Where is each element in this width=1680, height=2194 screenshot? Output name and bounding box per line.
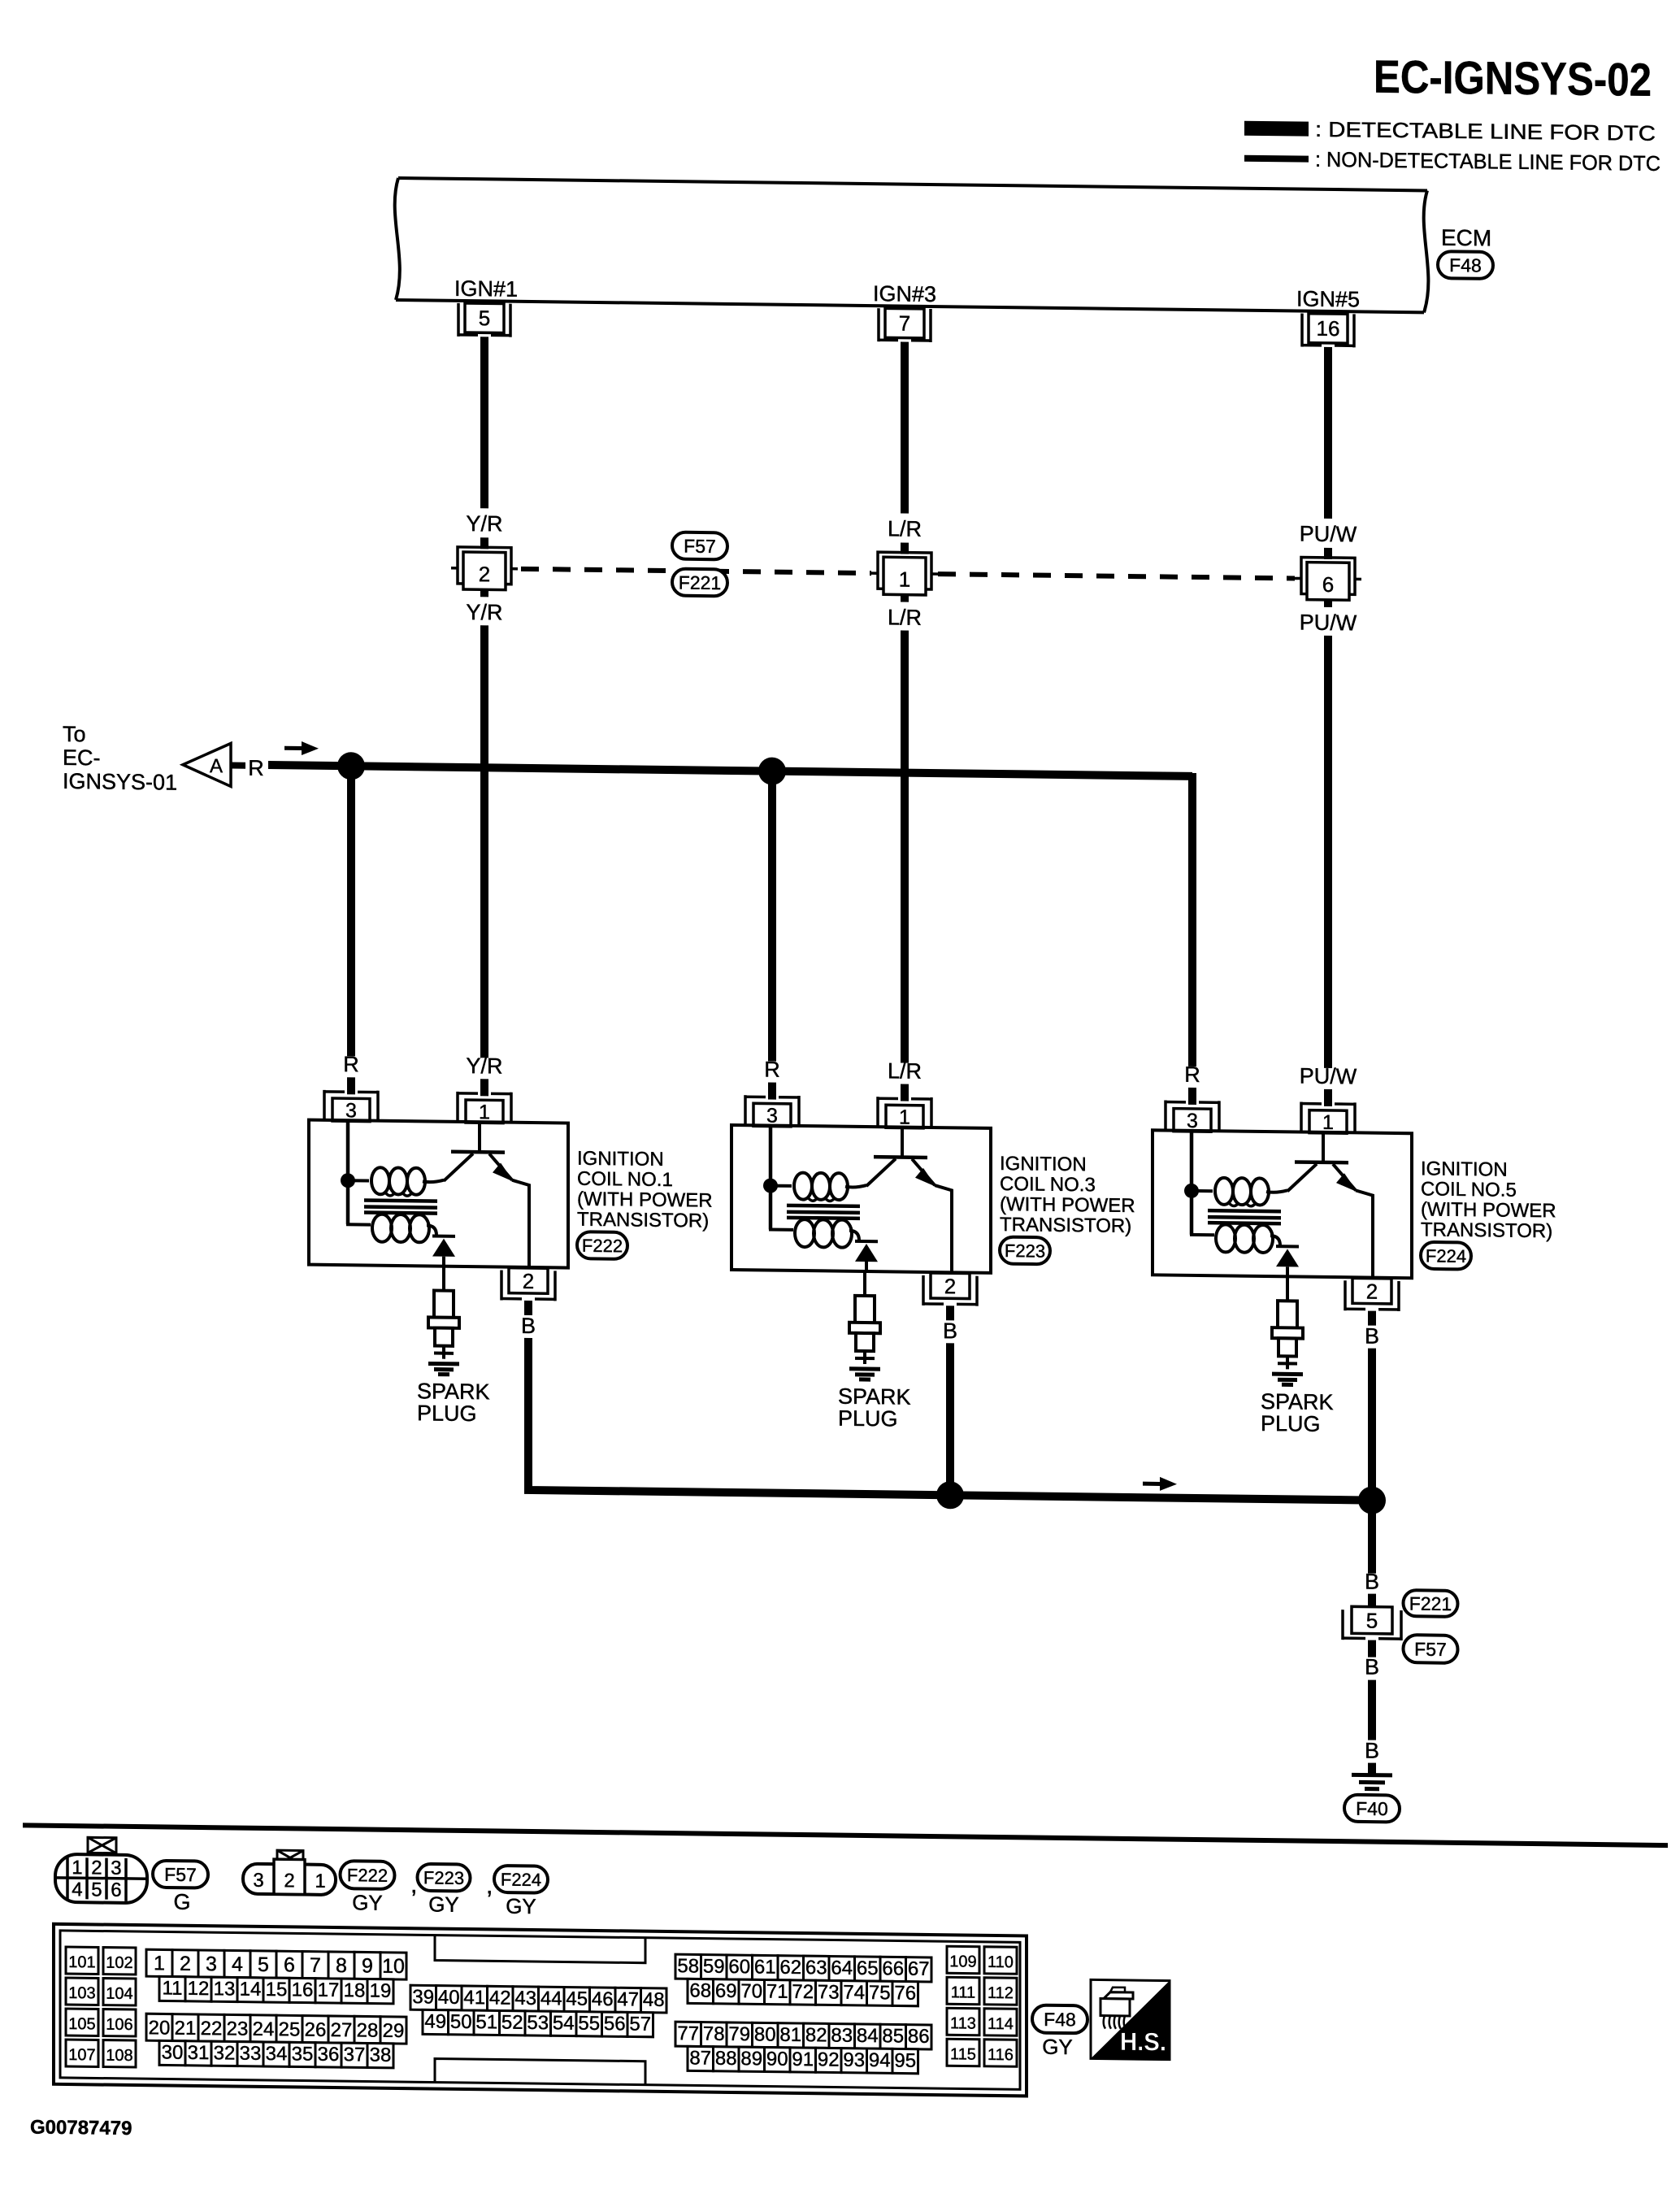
svg-text:COIL NO.3: COIL NO.3	[1000, 1173, 1096, 1196]
connector F57 oval (face view)	[153, 1861, 208, 1888]
svg-text:B: B	[521, 1314, 536, 1338]
svg-text:102: 102	[106, 1954, 132, 1972]
svg-text:To: To	[63, 722, 86, 746]
connector F222/F223/F224 face view (3-pin)	[243, 1850, 336, 1895]
svg-text:62: 62	[779, 1957, 801, 1979]
wire B from coil pin2 x=1169	[946, 1306, 954, 1320]
connector F57	[672, 532, 727, 560]
svg-text:PLUG: PLUG	[417, 1401, 477, 1426]
svg-text:113: 113	[950, 2014, 976, 2032]
svg-text:36: 36	[318, 2044, 340, 2066]
svg-text:B: B	[1365, 1570, 1379, 1594]
coil NO.3 internal transformer/transistor/diode	[763, 1126, 952, 1273]
svg-text:50: 50	[450, 2011, 472, 2033]
svg-text:38: 38	[370, 2044, 392, 2066]
svg-text:116: 116	[988, 2046, 1014, 2064]
coil3 pin 2	[1345, 1278, 1399, 1311]
connector F57 oval	[1404, 1635, 1458, 1663]
svg-text:F222: F222	[582, 1236, 623, 1257]
junction dot B bus coil3	[1358, 1486, 1386, 1514]
svg-text:: NON-DETECTABLE LINE FOR DTC: : NON-DETECTABLE LINE FOR DTC	[1315, 147, 1660, 176]
svg-text:93: 93	[843, 2049, 865, 2071]
svg-text:L/R: L/R	[888, 605, 922, 630]
coil1 pin 3	[324, 1090, 378, 1123]
svg-text:60: 60	[728, 1956, 750, 1978]
ECM pin 7 connector	[879, 308, 931, 342]
svg-text:52: 52	[501, 2012, 523, 2034]
separator rule	[23, 1825, 1668, 1845]
svg-text:88: 88	[715, 2048, 737, 2070]
svg-text:61: 61	[754, 1956, 776, 1978]
coil NO.3 text label	[1000, 1153, 1135, 1237]
svg-text:74: 74	[843, 1982, 865, 2004]
connector F222 oval	[577, 1232, 627, 1259]
svg-text:69: 69	[715, 1980, 737, 2002]
svg-text:1: 1	[315, 1870, 325, 1892]
coil NO.5 internal transformer/transistor/diode	[1184, 1132, 1373, 1279]
wire B from coil pin2 x=650	[524, 1301, 532, 1315]
svg-text:F57: F57	[164, 1864, 197, 1885]
svg-text:56: 56	[604, 2013, 626, 2035]
svg-text:,: ,	[486, 1872, 493, 1899]
junction dot B bus coil2	[936, 1481, 964, 1509]
connector F223 oval (face)	[418, 1864, 471, 1892]
pin grid 11-19	[159, 1976, 393, 2004]
svg-text:2: 2	[180, 1953, 191, 1975]
svg-text:IGN#1: IGN#1	[454, 276, 518, 302]
svg-text:101: 101	[68, 1953, 95, 1971]
legend: non-detectable line for DTC	[1244, 146, 1660, 176]
R branch wire x=1467	[1188, 773, 1196, 1067]
svg-text:21: 21	[175, 2018, 197, 2040]
svg-text:26: 26	[305, 2019, 327, 2041]
svg-text:34: 34	[266, 2043, 288, 2065]
svg-text:COIL NO.5: COIL NO.5	[1421, 1178, 1517, 1201]
dashed connector link	[521, 569, 871, 573]
svg-text:3: 3	[206, 1953, 217, 1975]
svg-text:68: 68	[689, 1979, 711, 2001]
wire stub from triangle	[231, 762, 245, 768]
svg-text:84: 84	[857, 2025, 879, 2047]
svg-text:L/R: L/R	[888, 516, 922, 541]
connector F224 oval	[1421, 1242, 1471, 1270]
svg-text:28: 28	[357, 2019, 379, 2041]
svg-text:GY: GY	[506, 1894, 536, 1918]
svg-text:B: B	[1365, 1324, 1379, 1349]
svg-text:78: 78	[703, 2023, 725, 2045]
ignition coil NO.5 box (with power transistor) F224	[1153, 1130, 1412, 1278]
svg-text:F224: F224	[501, 1869, 541, 1890]
svg-text:IGN#5: IGN#5	[1296, 286, 1360, 311]
svg-text:B: B	[1365, 1655, 1379, 1679]
svg-text:22: 22	[201, 2018, 223, 2040]
svg-text:R: R	[1184, 1062, 1200, 1087]
svg-text:F221: F221	[1409, 1592, 1452, 1614]
svg-text:3: 3	[345, 1099, 357, 1122]
svg-text:H.S.: H.S.	[1120, 2027, 1166, 2057]
svg-text:94: 94	[869, 2049, 891, 2071]
svg-text:4: 4	[232, 1953, 243, 1975]
svg-text:27: 27	[331, 2019, 353, 2041]
wire L/R below inline connector	[901, 593, 909, 602]
arrow on R bus	[284, 746, 302, 750]
svg-text:32: 32	[214, 2042, 236, 2064]
svg-text:33: 33	[240, 2043, 262, 2065]
svg-text:1: 1	[899, 1106, 910, 1129]
svg-text:1: 1	[154, 1952, 165, 1975]
svg-text:: DETECTABLE LINE FOR DTC: : DETECTABLE LINE FOR DTC	[1315, 117, 1656, 146]
svg-text:16: 16	[292, 1979, 314, 2001]
svg-text:16: 16	[1317, 316, 1340, 341]
wire B from coil pin2 x=1688	[1368, 1311, 1376, 1326]
inline connector pin 5 (F221/F57)	[1343, 1606, 1401, 1640]
svg-text:71: 71	[766, 1981, 788, 2003]
inline connector pin 1 (F57/F221)	[871, 552, 938, 595]
svg-text:Y/R: Y/R	[466, 511, 502, 537]
svg-text:F40: F40	[1356, 1798, 1388, 1819]
svg-text:5: 5	[258, 1953, 269, 1976]
svg-text:4: 4	[72, 1879, 82, 1901]
svg-text:GY: GY	[428, 1892, 459, 1916]
wire B to connector 5	[1368, 1501, 1376, 1574]
svg-text:115: 115	[950, 2045, 976, 2063]
B wire coil2 down	[946, 1343, 954, 1495]
svg-text:5: 5	[91, 1879, 102, 1901]
svg-text:Y/R: Y/R	[466, 600, 502, 625]
svg-text:103: 103	[68, 1984, 95, 2002]
pin grid 1-10	[146, 1949, 406, 1979]
wire L/R from ECM pin down	[901, 342, 909, 514]
arrow on B bus	[1143, 1482, 1161, 1486]
svg-text:GY: GY	[1042, 2035, 1073, 2059]
svg-text:30: 30	[162, 2041, 184, 2063]
svg-text:GY: GY	[352, 1890, 383, 1914]
svg-text:41: 41	[463, 1987, 485, 2009]
R branch wire x=950	[768, 771, 776, 1062]
svg-text:59: 59	[703, 1956, 725, 1978]
svg-text:TRANSISTOR): TRANSISTOR)	[577, 1209, 709, 1232]
connector F221 oval	[1404, 1590, 1458, 1617]
svg-text:86: 86	[908, 2026, 930, 2048]
wire Y/R below inline connector	[480, 588, 488, 597]
svg-text:IGNSYS-01: IGNSYS-01	[63, 769, 177, 795]
svg-text:104: 104	[106, 1985, 132, 2003]
svg-text:23: 23	[227, 2018, 249, 2040]
pin grid 58-67	[675, 1954, 931, 1982]
connector F222 oval (face)	[341, 1861, 395, 1889]
svg-text:G00787479: G00787479	[30, 2116, 132, 2140]
wire PU/W from ECM pin down	[1324, 347, 1332, 519]
svg-text:PLUG: PLUG	[1261, 1411, 1321, 1436]
svg-text:37: 37	[344, 2044, 366, 2066]
svg-text:76: 76	[894, 1982, 916, 2004]
svg-text:110: 110	[988, 1953, 1014, 1971]
ECM module band	[395, 178, 1429, 313]
To EC-IGNSYS-01 label	[63, 722, 177, 795]
pin grid 30-38	[159, 2040, 393, 2068]
svg-text:92: 92	[818, 2048, 840, 2070]
svg-text:PU/W: PU/W	[1300, 522, 1357, 547]
svg-text:81: 81	[779, 2024, 801, 2046]
svg-text:46: 46	[592, 1988, 614, 2010]
svg-text:5: 5	[479, 306, 490, 330]
GY color labels	[352, 1890, 536, 1918]
ground symbol F40	[1352, 1775, 1392, 1789]
svg-text:2: 2	[1366, 1279, 1378, 1304]
svg-text:R: R	[764, 1057, 779, 1081]
svg-text:7: 7	[899, 311, 910, 336]
svg-text:70: 70	[740, 1980, 762, 2002]
svg-text:9: 9	[362, 1954, 373, 1977]
svg-text:83: 83	[831, 2024, 853, 2046]
svg-text:14: 14	[240, 1979, 262, 2001]
coil NO.5 text label	[1421, 1158, 1556, 1242]
svg-text:75: 75	[869, 1982, 891, 2004]
ECM connector pinout block outline	[54, 1924, 1027, 2096]
svg-text:R: R	[248, 756, 263, 780]
svg-text:EC-: EC-	[63, 745, 100, 771]
svg-text:54: 54	[553, 2012, 575, 2034]
svg-text:82: 82	[805, 2024, 827, 2046]
svg-text:IGN#3: IGN#3	[873, 281, 936, 306]
svg-text:64: 64	[831, 1957, 853, 1979]
coil NO.1 internal transformer/transistor/diode	[341, 1121, 529, 1268]
svg-text:2: 2	[284, 1870, 294, 1892]
svg-text:24: 24	[253, 2018, 275, 2040]
svg-text:45: 45	[566, 1988, 588, 2010]
coil2 pin 3	[745, 1095, 799, 1127]
coil1 pin 2	[501, 1268, 555, 1301]
B wire coil3 down	[1368, 1349, 1376, 1501]
svg-text:F57: F57	[1414, 1639, 1447, 1660]
bottom key notch	[435, 2059, 645, 2085]
spark plug label	[838, 1384, 911, 1432]
junction dot at coil2 branch	[758, 757, 786, 784]
svg-text:F48: F48	[1044, 2009, 1076, 2030]
svg-text:F221: F221	[679, 571, 721, 593]
svg-text:F223: F223	[1005, 1240, 1045, 1262]
coil NO.1 text label	[577, 1148, 713, 1232]
svg-text:31: 31	[188, 2042, 210, 2064]
svg-text:108: 108	[106, 2047, 132, 2065]
svg-text:112: 112	[988, 1984, 1014, 2002]
svg-text:F222: F222	[347, 1865, 388, 1886]
svg-text:67: 67	[908, 1958, 930, 1980]
svg-text:PU/W: PU/W	[1300, 610, 1357, 636]
svg-text:1: 1	[72, 1857, 82, 1879]
svg-text:58: 58	[677, 1955, 699, 1977]
svg-text:91: 91	[792, 2048, 814, 2070]
ECM pin 16 connector	[1302, 314, 1354, 348]
spark plug at x=546	[428, 1266, 459, 1374]
svg-text:48: 48	[643, 1989, 665, 2011]
coil2 pin 1	[878, 1097, 931, 1129]
wire Y/R from ECM pin down	[480, 337, 488, 508]
svg-text:55: 55	[578, 2013, 600, 2035]
R bus horizontal wire	[268, 765, 1192, 776]
coil2 pin 2	[923, 1273, 977, 1306]
svg-text:IGNITION: IGNITION	[1421, 1158, 1508, 1180]
svg-text:57: 57	[629, 2013, 651, 2035]
svg-text:10: 10	[382, 1955, 405, 1978]
svg-text:B: B	[943, 1319, 957, 1343]
ignition coil NO.1 box (with power transistor) F222	[309, 1120, 568, 1268]
svg-text:20: 20	[149, 2017, 171, 2039]
svg-text:77: 77	[677, 2022, 699, 2044]
svg-text:11: 11	[163, 1977, 183, 1999]
coil1 pin 1	[458, 1092, 511, 1124]
svg-text:ECM: ECM	[1441, 225, 1491, 251]
svg-text:F57: F57	[684, 536, 716, 557]
connector F223 oval	[1000, 1237, 1050, 1265]
svg-text:111: 111	[951, 1983, 975, 2001]
svg-text:53: 53	[527, 2012, 549, 2034]
svg-text:3: 3	[111, 1857, 121, 1879]
svg-text:106: 106	[106, 2016, 132, 2034]
svg-text:1: 1	[479, 1101, 490, 1123]
pin grid 68-76	[688, 1979, 918, 2005]
svg-text:90: 90	[766, 2048, 788, 2070]
svg-text:1: 1	[899, 567, 910, 592]
svg-text:3: 3	[766, 1105, 778, 1127]
svg-text:107: 107	[68, 2046, 95, 2064]
svg-text:Y/R: Y/R	[466, 1054, 502, 1079]
svg-text:F224: F224	[1426, 1245, 1466, 1266]
svg-text:85: 85	[882, 2025, 904, 2047]
svg-text:44: 44	[540, 1988, 562, 2009]
svg-text:EC-IGNSYS-02: EC-IGNSYS-02	[1374, 51, 1652, 106]
svg-text:F48: F48	[1449, 254, 1482, 276]
svg-text:PLUG: PLUG	[838, 1406, 898, 1432]
inline connector pin 6 (F57/F221)	[1295, 557, 1361, 600]
svg-text:17: 17	[318, 1979, 340, 2001]
connector F40 oval	[1344, 1795, 1400, 1823]
svg-text:80: 80	[754, 2023, 776, 2045]
svg-text:TRANSISTOR): TRANSISTOR)	[1000, 1214, 1131, 1237]
off-page reference triangle A	[183, 743, 231, 787]
svg-text:2: 2	[479, 562, 490, 586]
svg-text:R: R	[343, 1052, 358, 1076]
svg-text:49: 49	[424, 2010, 446, 2032]
svg-text:1: 1	[1322, 1111, 1334, 1134]
svg-text:39: 39	[412, 1986, 434, 2008]
svg-text:2: 2	[944, 1274, 956, 1298]
svg-text:6: 6	[284, 1953, 295, 1976]
svg-text:79: 79	[728, 2023, 750, 2045]
svg-text:63: 63	[805, 1957, 827, 1979]
wire B below connector 5	[1368, 1640, 1376, 1657]
junction dot at coil1 branch	[337, 752, 365, 780]
svg-text:6: 6	[111, 1879, 121, 1901]
svg-text:105: 105	[68, 2015, 95, 2033]
svg-text:51: 51	[475, 2011, 497, 2033]
svg-text:18: 18	[344, 1979, 366, 2001]
svg-text:95: 95	[894, 2049, 916, 2071]
svg-text:73: 73	[818, 1981, 840, 2003]
spark plug label	[417, 1379, 490, 1426]
svg-text:65: 65	[857, 1957, 879, 1979]
ignition coil NO.3 box (with power transistor) F223	[731, 1125, 991, 1273]
svg-text:87: 87	[689, 2047, 711, 2069]
coil3 pin 3	[1166, 1101, 1219, 1133]
svg-text:TRANSISTOR): TRANSISTOR)	[1421, 1219, 1552, 1242]
R branch wire x=432	[347, 766, 355, 1056]
wire PU/W below inline connector	[1324, 598, 1332, 607]
pin grid 20-29	[146, 2014, 406, 2044]
svg-text:IGNITION: IGNITION	[1000, 1153, 1087, 1175]
svg-text:29: 29	[383, 2020, 405, 2042]
spark plug at x=1064	[849, 1271, 880, 1379]
svg-text:COIL NO.1: COIL NO.1	[577, 1168, 673, 1191]
svg-text:35: 35	[292, 2043, 314, 2065]
svg-text:72: 72	[792, 1981, 814, 2003]
svg-text:IGNITION: IGNITION	[577, 1148, 664, 1171]
connector F57 face view (6-pin)	[55, 1837, 147, 1903]
wire B	[1368, 1680, 1376, 1740]
svg-text:2: 2	[91, 1857, 102, 1879]
ECM pin 5 connector	[458, 303, 510, 337]
pin grid 49-57	[423, 2009, 653, 2036]
svg-text:F223: F223	[423, 1867, 464, 1888]
spark plug at x=1584	[1272, 1276, 1303, 1384]
spark plug label	[1261, 1389, 1334, 1436]
svg-text:42: 42	[489, 1987, 511, 2009]
svg-text:15: 15	[266, 1979, 288, 2001]
pin grid 101-108	[66, 1947, 136, 2067]
svg-text:5: 5	[1366, 1609, 1378, 1633]
svg-text:40: 40	[438, 1987, 460, 2009]
svg-text:6: 6	[1322, 572, 1334, 597]
coil3 pin 1	[1301, 1102, 1355, 1135]
svg-text:L/R: L/R	[888, 1058, 922, 1084]
top key notch	[435, 1935, 645, 1963]
pin grid 77-86	[675, 2022, 931, 2049]
pin grid 109-116	[947, 1946, 1017, 2066]
B bus: coil1 down and across	[528, 1338, 1372, 1501]
svg-text:A: A	[210, 755, 223, 777]
connector F221	[672, 569, 727, 597]
svg-text:13: 13	[214, 1978, 236, 2000]
svg-text:66: 66	[882, 1957, 904, 1979]
svg-text:7: 7	[310, 1954, 321, 1977]
svg-text:109: 109	[949, 1953, 976, 1970]
svg-text:3: 3	[1187, 1110, 1198, 1132]
connector F48 (ECM)	[1438, 251, 1493, 279]
H.S. harness-side logo	[1091, 1979, 1170, 2059]
svg-text:89: 89	[740, 2048, 762, 2070]
legend: detectable line for DTC	[1244, 116, 1656, 146]
svg-text:3: 3	[253, 1870, 263, 1892]
connector F48 oval (block)	[1032, 2005, 1087, 2034]
svg-text:12: 12	[188, 1978, 210, 2000]
svg-text:19: 19	[370, 1980, 392, 2002]
svg-text:114: 114	[988, 2015, 1014, 2033]
svg-text:8: 8	[336, 1954, 347, 1977]
svg-text:B: B	[1365, 1739, 1379, 1763]
svg-text:25: 25	[279, 2018, 301, 2040]
svg-text:47: 47	[617, 1988, 639, 2010]
svg-text:G: G	[173, 1890, 190, 1914]
svg-text:PU/W: PU/W	[1300, 1064, 1357, 1089]
connector F224 oval (face)	[494, 1866, 548, 1893]
wire B to ground	[1368, 1763, 1376, 1775]
pin grid 87-95	[688, 2046, 918, 2073]
inline connector pin 2 (F57/F221)	[451, 547, 518, 590]
svg-text:43: 43	[514, 1988, 536, 2009]
pin grid 39-48	[410, 1985, 666, 2013]
svg-text:2: 2	[523, 1269, 534, 1293]
